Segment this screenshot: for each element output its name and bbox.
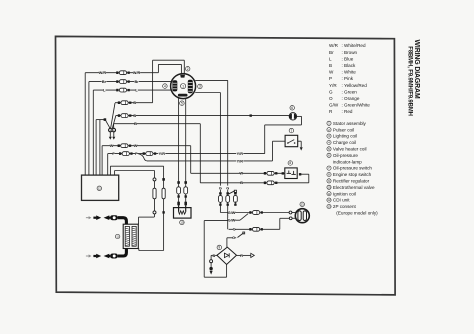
svg-text:Pulser coil: Pulser coil <box>333 127 354 132</box>
svg-text:G: G <box>329 89 333 94</box>
svg-text:P: P <box>135 152 138 156</box>
svg-text:2: 2 <box>187 67 189 71</box>
svg-text:: Yellow/Red: : Yellow/Red <box>342 83 368 88</box>
svg-text:B: B <box>213 254 216 258</box>
svg-text:W: W <box>240 172 244 176</box>
svg-text:Y/R: Y/R <box>329 83 337 88</box>
svg-text:F8BMH, F9.9MH/F9.9BMH: F8BMH, F9.9MH/F9.9BMH <box>406 46 412 116</box>
svg-text:G/W: G/W <box>329 103 339 108</box>
svg-text:Stator assembly: Stator assembly <box>333 121 367 126</box>
svg-text:Oil-pressure switch: Oil-pressure switch <box>333 166 373 171</box>
svg-text:12: 12 <box>98 186 101 190</box>
svg-text:1: 1 <box>182 84 184 88</box>
svg-text:Valve heater coil: Valve heater coil <box>333 147 367 152</box>
svg-text:B: B <box>329 63 332 68</box>
svg-text:9: 9 <box>218 246 220 250</box>
svg-text:Rectifier regulator: Rectifier regulator <box>333 179 370 184</box>
svg-text:W/R: W/R <box>329 43 339 48</box>
svg-text:: Orange: : Orange <box>342 96 360 101</box>
svg-text:: White/Red: : White/Red <box>342 43 366 48</box>
svg-text:3: 3 <box>199 85 201 89</box>
svg-text:B: B <box>133 101 136 105</box>
svg-text:G/W: G/W <box>228 219 236 223</box>
svg-text:4: 4 <box>164 84 166 88</box>
svg-text:Br: Br <box>329 50 334 55</box>
svg-text:: Green/White: : Green/White <box>342 103 371 108</box>
svg-text:: Black: : Black <box>342 63 356 68</box>
svg-text:: Red: : Red <box>342 109 353 114</box>
svg-text:: White: : White <box>342 70 357 75</box>
svg-text:7: 7 <box>291 129 293 133</box>
svg-text:: Pink: : Pink <box>342 76 354 81</box>
svg-text:WIRING DIAGRAM: WIRING DIAGRAM <box>413 40 420 99</box>
svg-text:B: B <box>133 114 136 118</box>
svg-text:W: W <box>329 70 334 75</box>
svg-text:R: R <box>240 254 243 258</box>
svg-text:P: P <box>112 152 115 156</box>
svg-text:CDI unit: CDI unit <box>333 198 350 203</box>
svg-text:W/R: W/R <box>133 71 141 75</box>
svg-text:Charge coil: Charge coil <box>333 140 356 145</box>
svg-text:P: P <box>329 76 332 81</box>
svg-text:6: 6 <box>291 106 293 110</box>
svg-text:G: G <box>226 186 229 190</box>
svg-text:: Green: : Green <box>342 89 358 94</box>
svg-text:Y/R: Y/R <box>237 159 244 163</box>
svg-text:10: 10 <box>180 220 183 224</box>
svg-text:Engine stop switch: Engine stop switch <box>333 172 372 177</box>
svg-text:2P consent: 2P consent <box>333 204 357 209</box>
svg-text:G/W: G/W <box>228 211 236 215</box>
svg-text:Oil-pressure: Oil-pressure <box>333 153 358 158</box>
svg-text:Lighting coil: Lighting coil <box>333 134 357 139</box>
svg-text:Electrothermal valve: Electrothermal valve <box>333 185 375 190</box>
svg-text:G: G <box>219 186 222 190</box>
svg-text:Ignition coil: Ignition coil <box>333 191 356 196</box>
svg-text:L: L <box>329 56 332 61</box>
svg-text:8: 8 <box>289 161 291 165</box>
svg-text:13: 13 <box>301 202 304 206</box>
svg-text:O: O <box>329 96 333 101</box>
svg-text:Br: Br <box>102 80 107 84</box>
svg-text:5: 5 <box>181 101 183 105</box>
svg-text:(Europe model only): (Europe model only) <box>336 211 378 216</box>
svg-text:W: W <box>134 144 138 148</box>
svg-text:Y/R: Y/R <box>159 152 166 156</box>
svg-text:B: B <box>240 181 243 185</box>
svg-text:G: G <box>233 228 236 232</box>
svg-text:: Brown: : Brown <box>342 50 358 55</box>
svg-text:W: W <box>110 144 114 148</box>
svg-text:Y/R: Y/R <box>237 152 244 156</box>
svg-text:W/R: W/R <box>99 71 107 75</box>
svg-text:B: B <box>134 122 137 126</box>
svg-text:: Blue: : Blue <box>342 56 354 61</box>
svg-text:indicator-lamp: indicator-lamp <box>333 159 362 164</box>
svg-text:Br: Br <box>134 80 139 84</box>
svg-text:G: G <box>232 236 235 240</box>
